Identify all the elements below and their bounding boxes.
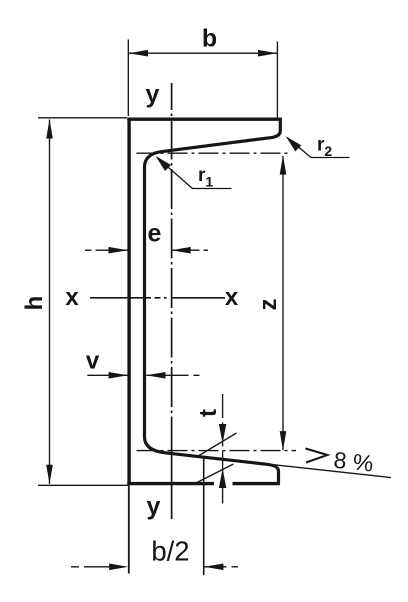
r2 leader line: [287, 138, 350, 158]
svg-text:e: e: [148, 220, 162, 248]
bottom flange mid dash-dot line: [137, 450, 297, 452]
dimension e right arrowhead pointing left: [171, 247, 190, 254]
slope greater-equal symbol: [306, 449, 328, 463]
svg-text:x: x: [65, 284, 79, 311]
top flange mid dash-dot line: [137, 152, 291, 154]
dimension v line right part: [146, 374, 199, 376]
dimension v right arrowhead pointing left: [146, 372, 165, 379]
dimension b/2 left arrowhead pointing right: [109, 564, 128, 571]
dimension z line: [282, 156, 284, 450]
svg-text:y: y: [146, 81, 160, 109]
dimension b/2 right arrowhead pointing left: [204, 564, 223, 571]
flange slope thin line extended to 8% note: [163, 453, 391, 478]
svg-text:h: h: [21, 296, 48, 311]
svg-text:v: v: [86, 348, 100, 375]
dimension z top arrowhead pointing up: [280, 155, 287, 174]
axis x-x horizontal centreline: [90, 297, 225, 299]
svg-text:z: z: [255, 299, 282, 311]
dimension h bottom extension line: [38, 484, 128, 486]
dimension v line left part: [87, 374, 127, 376]
dimension b/2 right extension line: [203, 459, 205, 576]
dimension b/2 line left part: [71, 566, 109, 568]
dimension b right extension line: [276, 42, 278, 119]
dimension e line right part: [172, 249, 208, 251]
r1 leader line: [157, 158, 232, 189]
dimension t upper oblique face mark: [199, 433, 237, 456]
dimension h top arrowhead: [46, 119, 53, 138]
channel profile bottom flange outer face right segment: [233, 482, 280, 485]
channel profile top flange outer face: [127, 117, 281, 120]
svg-text:x: x: [225, 284, 239, 311]
dimension t lower oblique face mark: [197, 464, 234, 483]
dimension t dashed gauge line: [222, 394, 224, 504]
dimension b line: [129, 52, 278, 54]
axis y-y vertical centreline: [171, 83, 173, 455]
r2 leader arrowhead at flange tip radius: [286, 136, 302, 151]
svg-text:r2: r2: [317, 135, 332, 160]
r1 leader arrowhead at web root radius: [156, 156, 172, 171]
svg-text:y: y: [147, 493, 161, 521]
svg-text:r1: r1: [198, 165, 213, 190]
svg-text:b/2: b/2: [151, 536, 189, 567]
dimension b right arrowhead: [258, 50, 277, 57]
dimension t upper arrowhead pointing down: [219, 424, 226, 444]
channel profile web left face: [127, 118, 130, 486]
svg-text:8 %: 8 %: [332, 447, 374, 477]
channel profile inner contour with root radii r1 and tip radii r2: [145, 118, 281, 483]
dimension b/2 line right part: [204, 566, 238, 568]
dimension h bottom arrowhead: [46, 465, 53, 484]
dimension t lower arrowhead pointing up: [219, 469, 226, 489]
dimension e line left part: [85, 249, 128, 251]
svg-text:t: t: [195, 409, 222, 417]
dimension h line: [49, 120, 51, 484]
dimension b/2 left extension line: [128, 486, 130, 574]
channel profile bottom flange outer face left segment: [127, 482, 214, 485]
dimension h top extension line: [38, 117, 127, 119]
dimension e left arrowhead pointing right: [109, 247, 128, 254]
dimension z bottom arrowhead pointing down: [280, 431, 287, 450]
svg-text:b: b: [202, 25, 217, 53]
dimension v left arrowhead pointing right: [109, 372, 128, 379]
dimension b left extension line: [127, 40, 129, 117]
dimension b left arrowhead: [129, 50, 149, 57]
